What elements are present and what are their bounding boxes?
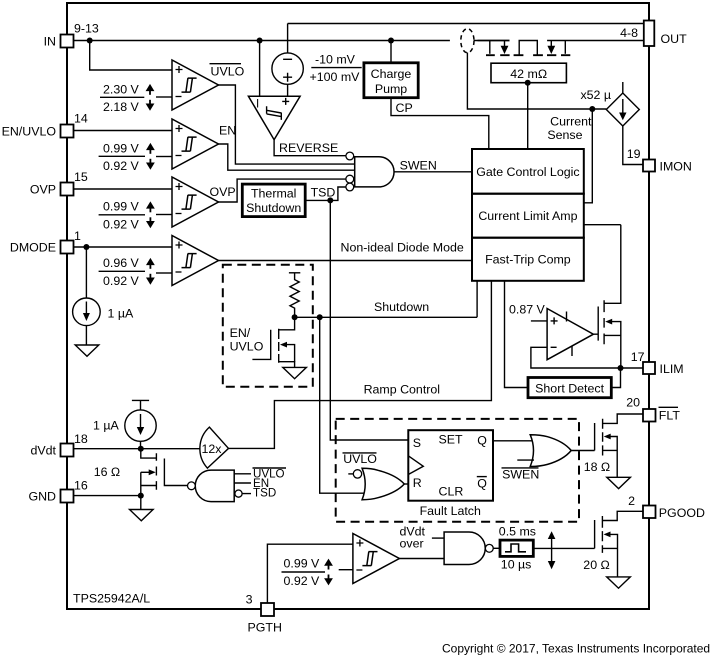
svg-text:0.5 ms: 0.5 ms [499,524,536,538]
comparator OVP [74,177,236,227]
svg-text:10 µs: 10 µs [501,557,532,571]
current source 1uA (DMODE pulldown) [73,247,134,345]
node current sense junction [589,106,595,112]
wire 42mOhm to gate control logic [527,83,529,149]
wire CP net [391,98,489,149]
svg-text:UVLO: UVLO [230,339,264,353]
svg-text:TPS25942A/L: TPS25942A/L [73,591,150,605]
svg-text:x52 µ: x52 µ [580,88,611,102]
svg-text:18 Ω: 18 Ω [584,460,611,474]
wire current sense tap [467,53,606,110]
svg-text:2.30 V: 2.30 V [103,83,140,97]
pin PGOOD (2) [628,494,705,520]
amplifier 12x [200,427,229,468]
node charge-pump junction [388,38,394,44]
value -10mV/+100mV label [310,53,362,85]
svg-text:Q: Q [477,433,487,447]
wire PGTH riser [267,544,353,603]
svg-text:20 Ω: 20 Ω [583,558,610,572]
wire shutdown to fault latch NOR [320,317,365,493]
ground (EN/UVLO FET) [283,367,307,378]
svg-text:Shutdown: Shutdown [246,201,301,215]
wire OR output to FLT FET gate [571,450,594,452]
transistor ILIM source follower FET [593,225,620,368]
svg-text:20: 20 [626,395,640,409]
svg-text:Shutdown: Shutdown [374,300,429,314]
svg-text:16 Ω: 16 Ω [94,465,121,479]
pin IN (9-13) [44,22,99,49]
node TSD junction [327,197,333,203]
op-amp current limit (0.87V) [509,302,593,359]
wire latch Q to FLT OR gate [493,440,532,442]
svg-text:PGTH: PGTH [248,621,282,635]
svg-text:EN/: EN/ [230,326,251,340]
wire TSD to fault latch S input [330,200,408,440]
wire current sense to current limit amp [584,109,593,203]
wire IN rail [74,40,510,42]
svg-text:19: 19 [627,147,641,161]
value 0.99V/0.92V threshold (OVP) [99,200,155,232]
svg-text:Charge: Charge [371,67,412,81]
pin EN/UVLO (14) [2,111,88,138]
wire current limit amp output to FET drain [584,224,621,226]
svg-text:dVdt: dVdt [31,443,57,457]
wire OVP output to SWEN gate [219,179,346,202]
svg-text:1 µA: 1 µA [93,419,119,433]
wire EN output to SWEN gate [219,144,355,170]
svg-text:Current Limit Amp: Current Limit Amp [478,209,577,223]
comparator UVLO [90,41,245,111]
label Current Sense [547,114,592,142]
wire dVdt net [74,448,201,450]
svg-text:S: S [413,436,421,450]
svg-text:R: R [413,476,422,490]
svg-text:Gate Control Logic: Gate Control Logic [476,165,579,179]
svg-text:REVERSE: REVERSE [279,141,338,155]
svg-text:EN/UVLO: EN/UVLO [2,124,57,138]
svg-text:2: 2 [628,494,635,508]
svg-text:TSD: TSD [253,487,276,500]
pin IMON (19) [627,147,692,173]
gate OR (FLT driver) [517,435,571,467]
wire REVERSE output to SWEN gate [274,140,346,156]
comparator DMODE [74,236,219,286]
svg-text:3: 3 [246,593,253,607]
svg-text:SWEN: SWEN [400,159,437,173]
svg-text:OVP: OVP [30,182,56,196]
dashed ellipse current-sense element on IN rail [461,29,474,53]
pin OVP (15) [30,170,88,196]
label dVdt over (NAND input net) [400,524,445,550]
svg-text:16: 16 [74,478,88,492]
svg-text:Non-ideal Diode Mode: Non-ideal Diode Mode [341,241,464,255]
pin GND (16) [28,478,87,503]
dashed box EN/UVLO internal pulldown [223,265,313,387]
svg-text:2.18 V: 2.18 V [103,100,140,114]
svg-text:OUT: OUT [661,32,688,46]
svg-text:Short Detect: Short Detect [535,382,604,396]
node shutdown branch junction [317,314,323,320]
wire TSD net [305,185,346,200]
svg-text:Q: Q [477,476,487,490]
svg-text:-10 mV: -10 mV [315,53,356,67]
svg-text:0.87 V: 0.87 V [509,302,546,316]
gate NAND (dVdt FET driver, mirrored) [188,470,252,502]
block Thermal Shutdown [242,184,305,217]
svg-text:0.99 V: 0.99 V [103,200,140,214]
value 0.96V/0.92V threshold (DMODE) [99,256,155,288]
pin dVdt (18) [31,432,88,457]
svg-text:Ramp Control: Ramp Control [364,382,440,396]
wire IMON output [623,126,643,165]
svg-text:Current: Current [550,114,592,128]
block Gate Control Logic [472,149,584,194]
svg-text:UVLO: UVLO [211,65,245,79]
block Fast-Trip Comp [472,238,584,281]
svg-text:EN: EN [219,123,236,137]
svg-text:12x: 12x [202,442,223,456]
svg-text:+100 mV: +100 mV [310,70,361,84]
ground (DMODE current source) [75,345,99,356]
svg-text:ILIM: ILIM [660,362,684,376]
node ILIM junction [618,365,624,371]
svg-text:CLR: CLR [439,484,464,498]
voltage source -10mV/+100mV [272,53,303,96]
charge pump U-CP [364,41,418,98]
svg-text:18: 18 [74,432,88,446]
svg-text:I: I [256,98,259,111]
latch SR (SET/CLR) [408,430,493,501]
svg-text:Fast-Trip Comp: Fast-Trip Comp [485,253,571,267]
ground (FLT FET) [607,477,631,488]
svg-text:14: 14 [74,111,88,125]
outer border frame [67,3,649,609]
svg-text:DMODE: DMODE [10,240,56,254]
wire PGTH comparator output [399,558,444,560]
resistor 42 mOhm sense element [491,63,566,82]
pin ILIM (17) [631,350,684,376]
wire SWEN net [394,159,472,173]
svg-text:0.92 V: 0.92 V [103,274,140,288]
wire Ramp Control net [229,281,492,449]
pin PGTH (3) [246,593,282,635]
comparator EN [74,119,237,169]
transistor PGOOD open-drain FET (20 Ohm) [583,511,643,577]
wire UVLO output to SWEN gate [219,85,355,164]
svg-text:17: 17 [631,350,645,364]
block Short Detect [528,378,611,398]
svg-text:0.92 V: 0.92 V [103,217,140,231]
svg-text:OVP: OVP [210,185,236,199]
svg-text:1 µA: 1 µA [108,307,134,321]
svg-text:4-8: 4-8 [620,26,638,40]
wire GND pin net [74,495,141,497]
pin DMODE (1) [10,229,81,254]
svg-text:0.92 V: 0.92 V [103,159,140,173]
svg-text:Fault Latch: Fault Latch [420,504,481,518]
transistor EN/UVLO pulldown FET [230,317,295,367]
one-shot 0.5ms/10us deglitch timer [493,524,536,571]
dashed box Fault Latch [336,419,579,522]
svg-text:1: 1 [74,229,81,243]
svg-text:Pump: Pump [375,82,407,96]
svg-text:TSD: TSD [311,185,336,199]
wire fast-trip to short detect [505,281,529,388]
comparator REVERSE (points down) [248,41,300,140]
ground (PGOOD FET) [607,577,631,588]
svg-text:SET: SET [439,432,464,446]
node reverse-sense junction [257,38,263,44]
block Current Limit Amp [472,194,584,238]
wire Shutdown net [295,281,478,318]
svg-text:9-13: 9-13 [74,22,99,36]
node dVdt junction [138,446,144,452]
wire OUT sense rail (top) [288,24,644,54]
label UVLO/EN/TSD NAND inputs [253,468,287,500]
svg-text:IMON: IMON [660,159,692,173]
ground (dVdt FET) [130,510,154,521]
current source x52u (current sense mirror) [580,82,639,126]
label UVLO (NOR input net) [343,452,378,466]
svg-text:0.96 V: 0.96 V [103,256,140,270]
resistor (EN/UVLO pullup) [289,273,300,318]
svg-text:SWEN: SWEN [502,467,539,481]
node DMODE junction [83,244,89,250]
svg-text:GND: GND [28,489,56,503]
wire one-shot output to PGOOD FET gate [533,547,594,549]
comparator PGTH [339,534,400,584]
value 0.99V/0.92V threshold (EN) [99,142,155,173]
svg-text:PGOOD: PGOOD [659,506,705,520]
value 2.30V/2.18V threshold [100,83,154,114]
value 0.99V/0.92V threshold (PGTH) [282,557,333,589]
svg-text:Thermal: Thermal [251,186,296,200]
wire short detect to ILIM node [611,368,620,388]
wire op-amp feedback from ILIM [531,347,643,368]
pin FLT (20) [626,395,680,422]
up/down arrows (PGOOD timing) [548,531,556,569]
label SWEN (OR input net) [502,467,540,481]
pin OUT (4-8) [620,21,687,47]
svg-text:15: 15 [74,170,88,184]
svg-text:UVLO: UVLO [343,452,377,466]
wire Non-ideal Diode Mode net [219,241,473,261]
transistor dVdt discharge FET (16 Ohm) [94,449,188,510]
svg-text:Copyright © 2017, Texas Instru: Copyright © 2017, Texas Instruments Inco… [442,642,710,656]
transistor pass FETs (back-to-back power switch) [474,41,644,56]
current source 1uA (dVdt) [93,400,156,448]
svg-text:IN: IN [44,34,56,48]
svg-text:42 mΩ: 42 mΩ [510,67,547,81]
transistor FLT open-drain FET (18 Ohm) [584,414,643,477]
node IN-branch junction [87,38,93,44]
node GND junction [138,493,144,499]
node EN/UVLO resistor junction [292,314,298,320]
svg-text:FLT: FLT [659,408,681,422]
svg-text:0.99 V: 0.99 V [284,557,321,571]
svg-text:0.99 V: 0.99 V [103,142,140,156]
svg-text:over: over [400,537,424,551]
gate NOR (fault latch reset) [348,468,408,499]
svg-text:0.92 V: 0.92 V [284,574,321,588]
svg-text:CP: CP [396,101,413,115]
svg-text:Sense: Sense [547,128,582,142]
gate AND SWEN (4-input) [346,152,394,191]
node 42mOhm sense junction [525,80,531,86]
gate NAND (PGOOD deglitch) [444,532,493,565]
